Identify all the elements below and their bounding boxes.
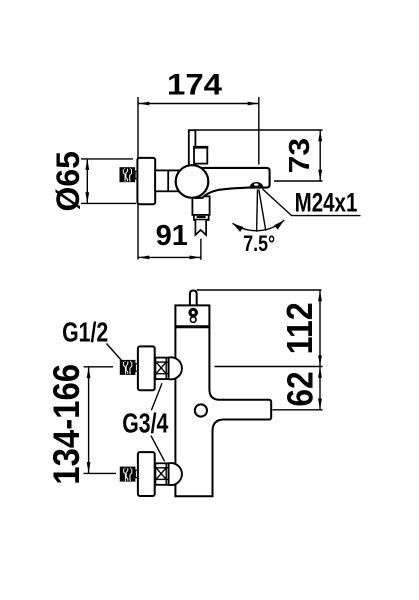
lever grip block [194, 147, 207, 164]
svg-text:112: 112 [280, 302, 320, 354]
keyhole ring upper [190, 309, 196, 315]
angle ray left (7.5°) [256, 190, 259, 232]
angle arc 7.5° [233, 220, 285, 231]
keyhole ring lower [190, 317, 196, 323]
extension tick 134-166 bottom [84, 472, 117, 474]
dimension line 174 [138, 103, 259, 105]
nipple step [135, 470, 138, 477]
leader G3/4 upper [151, 383, 162, 410]
extension line 62 bottom (spout axis) [273, 409, 323, 411]
svg-text:62: 62 [281, 371, 322, 406]
extension line 73 bottom (spout underside plane) [274, 180, 323, 182]
lever rod (handle) [189, 130, 196, 166]
svg-text:91: 91 [156, 220, 188, 252]
dimension line 112 [319, 290, 321, 367]
leader G1/2 [107, 344, 123, 362]
svg-text:73: 73 [283, 138, 315, 173]
svg-text:134-166: 134-166 [46, 364, 87, 485]
connector between escutcheon and body [155, 170, 178, 191]
extension line left (wall plane, shared by 174 and 91) [137, 97, 139, 260]
svg-text:G3/4: G3/4 [122, 408, 168, 440]
svg-text:174: 174 [167, 67, 223, 101]
wall escutcheon (bottom inlet) [138, 452, 155, 496]
union nut with X (bottom inlet) [155, 463, 168, 485]
dimension line 134-166 [88, 367, 90, 474]
svg-text:7.5°: 7.5° [243, 232, 275, 256]
dimension line 91 [138, 256, 201, 258]
spout (side view) [196, 168, 270, 198]
angle ray right (7.5°) [259, 190, 266, 231]
dimension line Ø65 [86, 159, 88, 204]
extension tick 134-166 top [84, 366, 114, 368]
hose nut [194, 215, 209, 220]
diverter knob circle [195, 404, 207, 416]
arc arrowhead left [233, 223, 244, 232]
extension line right (spout tip plane) [258, 97, 260, 165]
aerator outlet (M24x1) [250, 182, 264, 188]
arc arrowhead right [274, 220, 284, 230]
body (front view) [175, 305, 271, 496]
shower outlet tube below body [192, 196, 209, 215]
leader M24x1 [263, 189, 361, 216]
lever pin (front view) [190, 291, 197, 306]
mixer body circle [176, 165, 209, 198]
dimension line 62 [319, 367, 321, 410]
extension tick bottom (Ø65) [81, 202, 136, 204]
connector divider line [167, 170, 169, 191]
wall escutcheon (top inlet) [138, 346, 155, 390]
dimension line 73 [319, 130, 321, 181]
extension tick top (Ø65) [81, 158, 133, 160]
svg-text:M24x1: M24x1 [295, 188, 358, 218]
svg-text:Ø65: Ø65 [50, 151, 86, 211]
threaded nipple G1/2 (bottom) [120, 467, 136, 482]
cap bottom thick line [175, 325, 209, 328]
hose end fork [195, 220, 206, 235]
nipple step [135, 364, 138, 371]
extension line 73 top (lever top plane) [196, 129, 323, 131]
wall escutcheon (side view) [137, 158, 155, 204]
extension line mid (112/62 shared) [215, 366, 323, 368]
dome cap (top inlet) [169, 357, 182, 379]
svg-text:G1/2: G1/2 [62, 317, 108, 349]
threaded nipple G1/2 (top) [120, 360, 136, 375]
leader G3/4 lower [151, 436, 165, 462]
threaded wall nipple (side view, S-union) [120, 167, 136, 182]
extension line 112 top [197, 289, 322, 291]
dome cap (bottom inlet) [169, 463, 182, 485]
union nut with X (top inlet) [155, 358, 168, 380]
extension line 91 right (shower outlet axis) [200, 239, 202, 260]
